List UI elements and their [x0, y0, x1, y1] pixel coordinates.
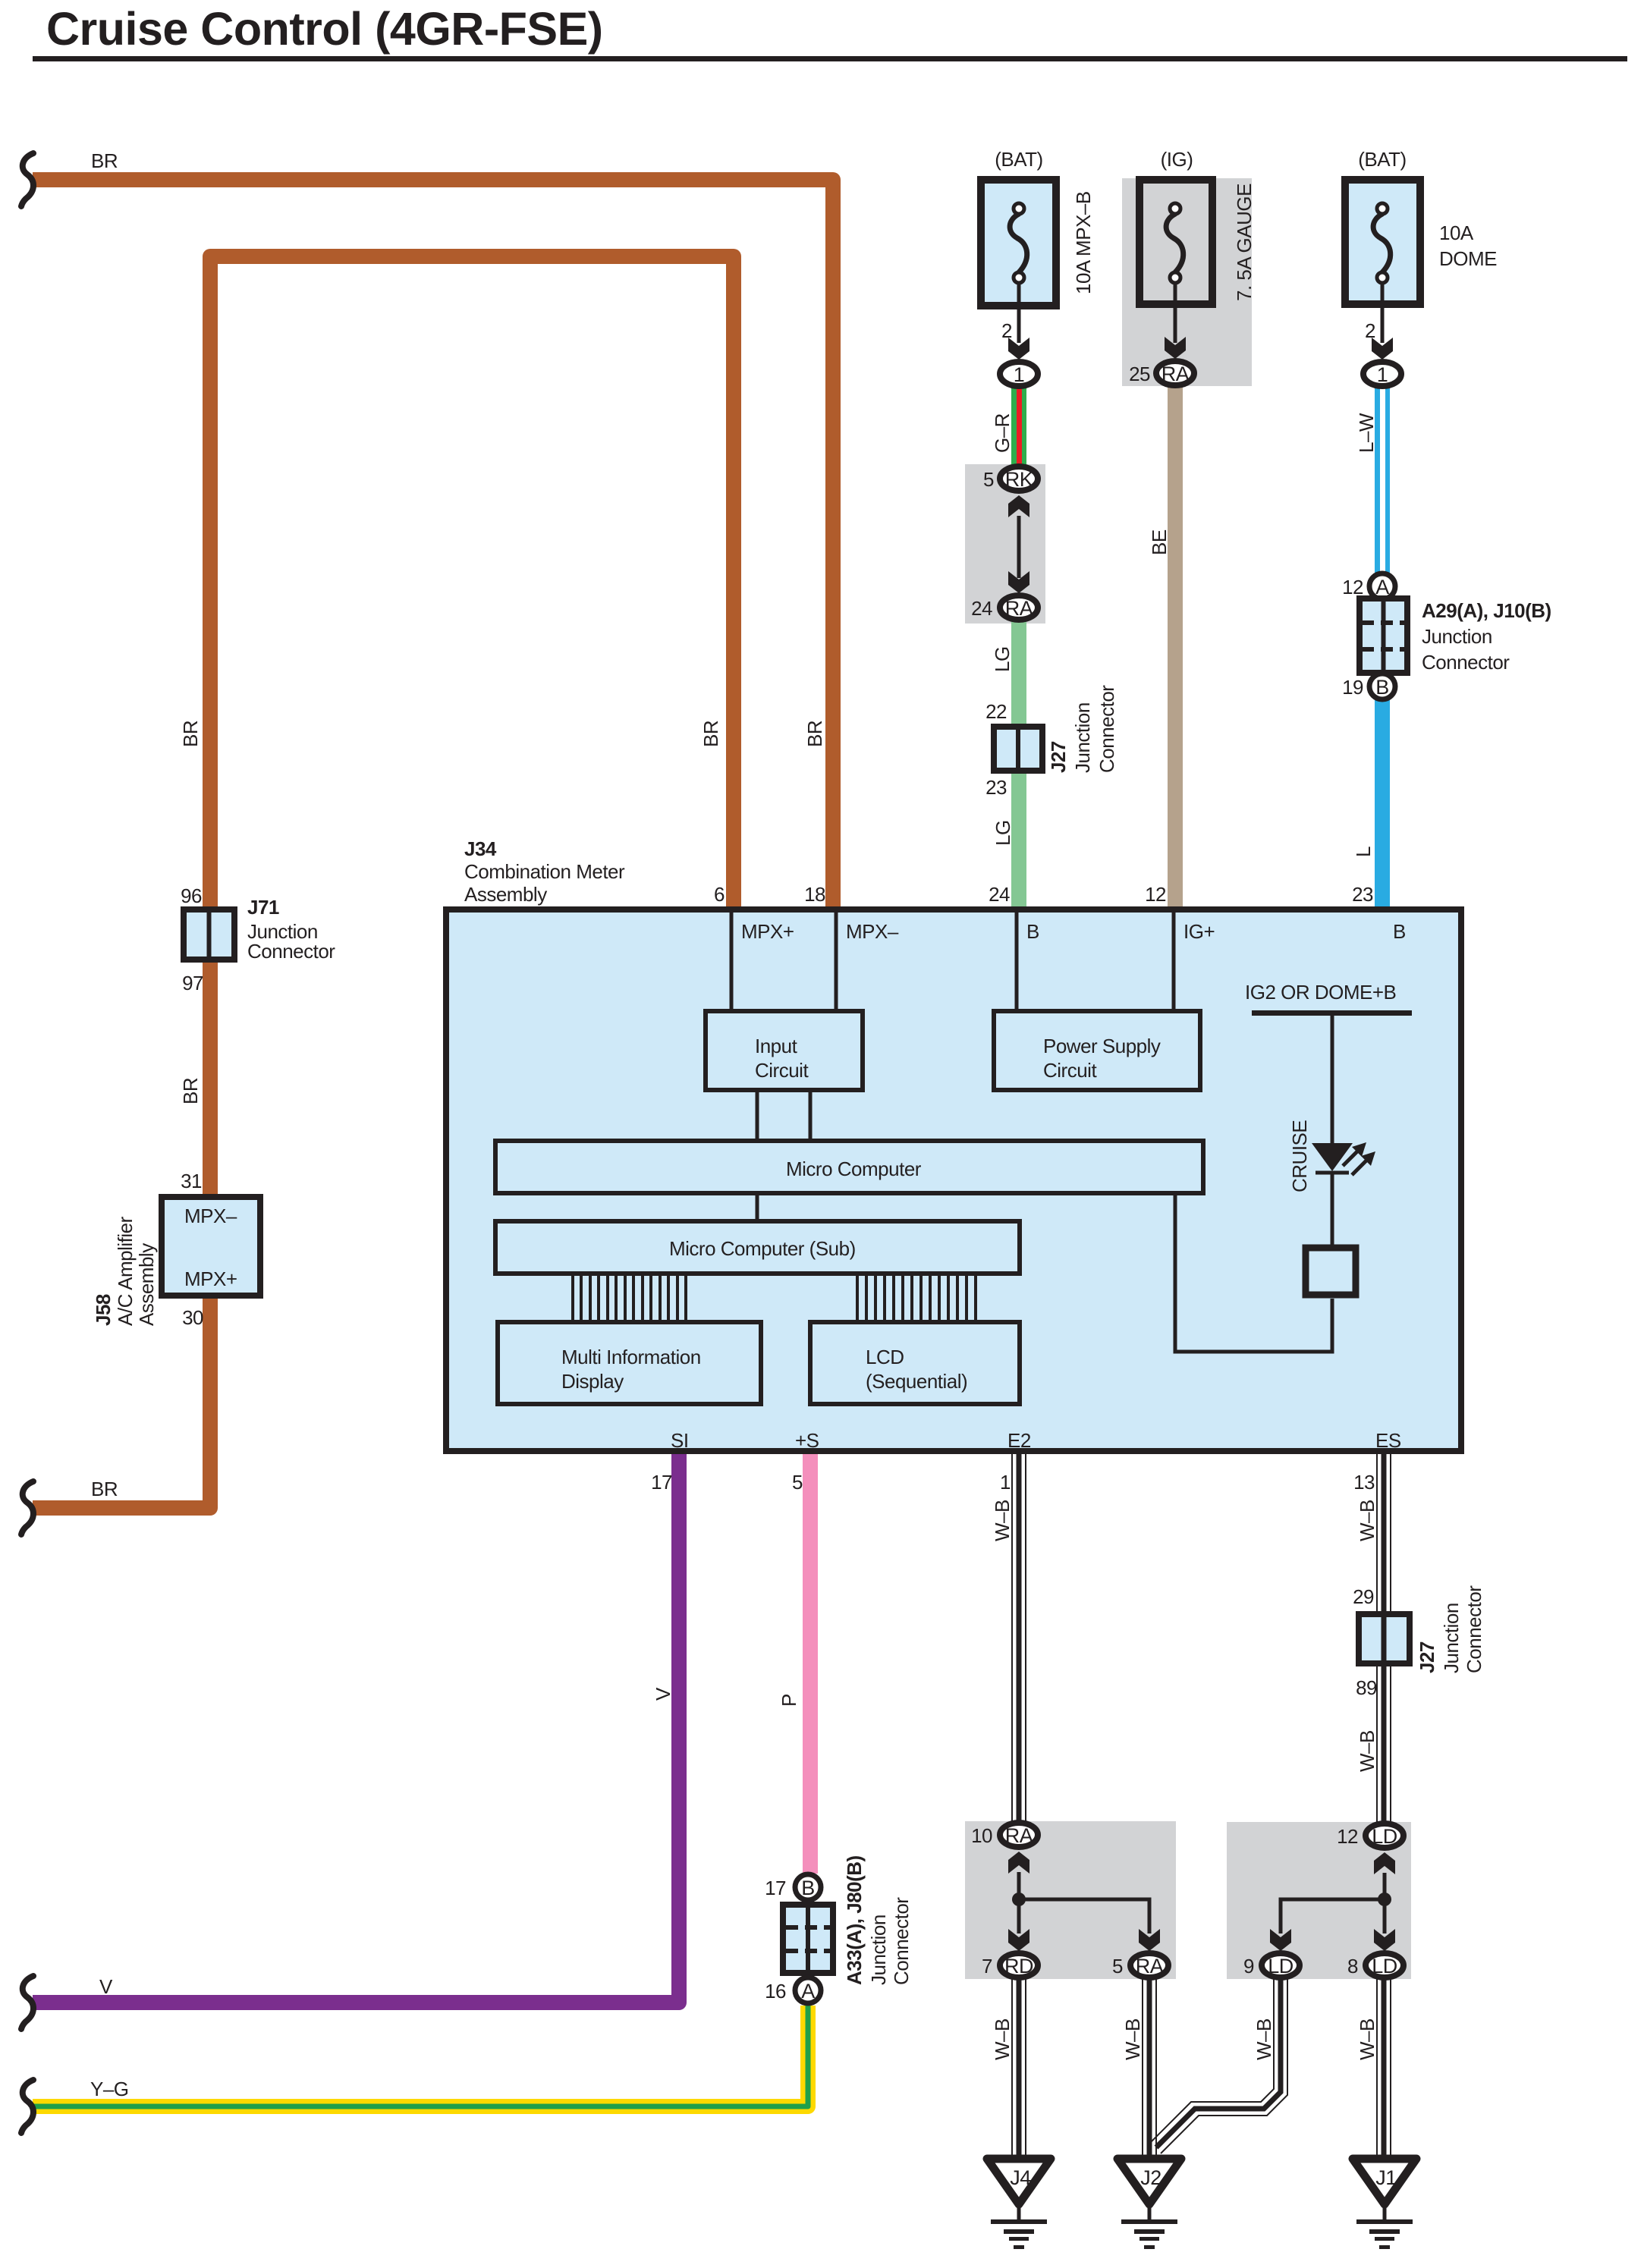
svg-text:L–W: L–W	[1355, 413, 1378, 453]
svg-text:Combination Meter: Combination Meter	[464, 860, 625, 883]
branch wires gray box 1	[1019, 1872, 1149, 1933]
wire W-B E2	[1012, 1451, 1026, 1822]
connector arrow down into LD9	[1270, 1929, 1291, 1951]
svg-text:DOME: DOME	[1439, 247, 1497, 270]
fuse DOME output stem	[1381, 283, 1385, 343]
svg-text:V: V	[99, 1975, 113, 1998]
wire IG+ pin12 to power supply circuit	[1172, 909, 1176, 1011]
double connector arrows RK-RA	[1008, 495, 1029, 517]
svg-text:W–B: W–B	[1121, 2018, 1144, 2060]
wire W-B RA5 to J2	[1143, 1978, 1156, 2160]
multi information display box	[498, 1322, 761, 1404]
wire V	[33, 1451, 679, 2003]
junction connector J27 top	[994, 727, 1042, 771]
svg-text:1: 1	[1000, 1471, 1011, 1494]
svg-text:9: 9	[1243, 1955, 1254, 1977]
svg-text:17: 17	[765, 1877, 786, 1899]
wire P	[803, 1451, 818, 1874]
cruise indicator LED	[1312, 1143, 1353, 1171]
svg-text:MPX+: MPX+	[184, 1268, 237, 1290]
svg-text:LD: LD	[1372, 1955, 1397, 1977]
svg-text:W–B: W–B	[991, 1500, 1014, 1541]
svg-text:MPX–: MPX–	[846, 920, 899, 943]
svg-text:J58: J58	[92, 1294, 115, 1326]
svg-text:J27: J27	[1047, 741, 1070, 773]
svg-text:B: B	[1393, 920, 1406, 943]
svg-text:Junction: Junction	[1440, 1603, 1463, 1673]
svg-text:97: 97	[182, 972, 203, 994]
svg-text:2: 2	[1001, 319, 1012, 342]
svg-text:12: 12	[1337, 1825, 1358, 1848]
svg-text:(BAT): (BAT)	[995, 148, 1042, 171]
power supply circuit box	[994, 1011, 1200, 1090]
svg-text:12: 12	[1145, 883, 1166, 906]
svg-text:MPX–: MPX–	[184, 1205, 237, 1227]
svg-text:RA: RA	[1005, 1824, 1033, 1847]
svg-text:6: 6	[714, 883, 725, 906]
fuse 10A MPX-B	[981, 180, 1056, 306]
wire W-B RD7 to J4	[1012, 1978, 1026, 2160]
svg-text:W–B: W–B	[1253, 2018, 1275, 2060]
svg-text:24: 24	[989, 883, 1010, 906]
svg-text:LD: LD	[1372, 1825, 1397, 1848]
svg-text:(Sequential): (Sequential)	[866, 1370, 967, 1393]
svg-text:ES: ES	[1375, 1429, 1401, 1452]
svg-text:Junction: Junction	[1071, 702, 1094, 773]
wire G-R	[1011, 383, 1026, 466]
svg-text:J27: J27	[1416, 1641, 1438, 1673]
svg-text:Micro Computer (Sub): Micro Computer (Sub)	[669, 1237, 856, 1260]
J34 combination meter assembly box	[446, 909, 1461, 1451]
terminal oval RA pin 25	[1156, 361, 1194, 385]
svg-text:24: 24	[971, 597, 992, 620]
svg-text:2: 2	[1365, 319, 1375, 342]
fuse 7.5A GAUGE	[1139, 180, 1212, 304]
wire MPX- pin18 to input circuit	[835, 909, 838, 1011]
micro computer box	[495, 1141, 1203, 1193]
svg-text:10A MPX–B: 10A MPX–B	[1072, 191, 1095, 294]
wire LG upper	[1011, 620, 1026, 727]
svg-text:BE: BE	[1148, 529, 1171, 555]
branch wires gray box 2	[1281, 1873, 1385, 1933]
svg-text:(IG): (IG)	[1161, 148, 1193, 171]
svg-text:10A: 10A	[1439, 221, 1474, 244]
svg-text:Power Supply: Power Supply	[1043, 1035, 1161, 1057]
svg-text:5: 5	[983, 468, 994, 491]
svg-text:J1: J1	[1375, 2166, 1397, 2189]
svg-text:Circuit: Circuit	[755, 1059, 809, 1082]
junction connector A33(A) J80(B)	[795, 1874, 821, 1900]
break squiggle V	[21, 1976, 33, 2029]
svg-text:19: 19	[1342, 676, 1363, 699]
gray background box RA10/RD7/RA5	[965, 1821, 1176, 1979]
svg-text:Connector: Connector	[1095, 685, 1118, 773]
wire B pin24 to power supply circuit	[1015, 909, 1019, 1011]
terminal oval LD pin 12	[1366, 1824, 1404, 1848]
terminal oval 1 (DOME)	[1363, 362, 1401, 386]
svg-text:A: A	[801, 1980, 815, 2003]
connector arrow up into LD12	[1374, 1852, 1395, 1874]
svg-text:13: 13	[1353, 1471, 1375, 1494]
svg-text:Connector: Connector	[1463, 1585, 1485, 1673]
fuse GAUGE output stem	[1174, 283, 1177, 343]
svg-text:J2: J2	[1140, 2166, 1161, 2189]
connector arrow into terminal 1 (DOME)	[1372, 338, 1393, 360]
wire BR top (MPX-)	[33, 180, 833, 909]
input circuit box	[706, 1011, 863, 1090]
svg-text:Cruise Control (4GR-FSE): Cruise Control (4GR-FSE)	[46, 3, 603, 55]
break squiggle top BR	[21, 153, 33, 206]
svg-text:89: 89	[1356, 1676, 1377, 1699]
svg-text:22: 22	[985, 700, 1007, 723]
svg-text:5: 5	[1112, 1955, 1123, 1977]
wire cruise LED to lamp driver box	[1331, 1171, 1334, 1248]
svg-text:LCD: LCD	[866, 1346, 904, 1368]
svg-text:IG+: IG+	[1183, 920, 1215, 943]
svg-text:Connector: Connector	[247, 940, 335, 963]
svg-text:12: 12	[1342, 576, 1363, 598]
svg-text:LG: LG	[992, 820, 1014, 846]
svg-text:1: 1	[1377, 363, 1388, 386]
svg-text:B: B	[1375, 676, 1389, 699]
svg-text:Input: Input	[755, 1035, 798, 1057]
wire BE	[1168, 385, 1183, 908]
svg-text:W–B: W–B	[1356, 1500, 1378, 1541]
svg-text:RD: RD	[1004, 1955, 1033, 1977]
connector arrow down into RD7	[1008, 1929, 1029, 1951]
svg-text:L: L	[1352, 847, 1375, 857]
svg-text:30: 30	[182, 1306, 203, 1329]
svg-text:7. 5A GAUGE: 7. 5A GAUGE	[1233, 184, 1256, 301]
terminal oval RD pin 7	[1000, 1953, 1038, 1977]
svg-text:31: 31	[181, 1170, 202, 1192]
break squiggle lower BR	[21, 1481, 33, 1535]
terminal oval LD pin 8	[1366, 1953, 1404, 1977]
terminal oval RA pin 10	[1000, 1823, 1038, 1847]
svg-text:RA: RA	[1005, 597, 1033, 620]
wire micro computer to micro computer sub	[756, 1193, 759, 1221]
svg-text:10: 10	[971, 1824, 992, 1847]
wire L-W	[1375, 385, 1390, 573]
J34 internal connection lines	[731, 909, 1332, 1352]
svg-text:BR: BR	[91, 149, 118, 172]
svg-text:MPX+: MPX+	[741, 920, 794, 943]
svg-text:23: 23	[1352, 883, 1373, 906]
svg-text:Connector: Connector	[1422, 651, 1510, 674]
svg-text:29: 29	[1353, 1585, 1374, 1608]
svg-text:W–B: W–B	[1356, 1730, 1378, 1772]
ribbon cable to LCD	[857, 1274, 976, 1322]
wire input circuit to micro computer	[756, 1090, 759, 1141]
junction connector A29(A) J10(B)	[1369, 573, 1395, 599]
break squiggle Y-G	[21, 2080, 33, 2133]
terminal oval 1 (MPX-B)	[1000, 362, 1038, 386]
connector arrow into RA 25	[1165, 337, 1186, 359]
svg-text:CRUISE: CRUISE	[1288, 1120, 1311, 1192]
terminal oval RA pin 24	[1000, 595, 1038, 620]
svg-text:BR: BR	[179, 721, 202, 747]
svg-text:J4: J4	[1010, 2166, 1031, 2189]
gray background box RK/RA	[965, 464, 1045, 624]
terminal oval RA pin 5	[1130, 1953, 1168, 1977]
title rule	[33, 56, 1627, 61]
svg-text:Assembly: Assembly	[464, 883, 547, 906]
svg-text:16: 16	[765, 1980, 786, 2003]
svg-text:SI: SI	[671, 1429, 689, 1452]
svg-text:W–B: W–B	[991, 2018, 1014, 2060]
svg-text:A/C Amplifier: A/C Amplifier	[114, 1216, 137, 1326]
svg-text:RA: RA	[1161, 363, 1190, 385]
svg-text:RK: RK	[1005, 468, 1033, 491]
svg-text:Junction: Junction	[1422, 625, 1492, 648]
svg-text:BR: BR	[699, 721, 722, 747]
svg-text:96: 96	[181, 884, 202, 907]
terminal oval RK pin 5	[1000, 466, 1038, 491]
svg-text:8: 8	[1347, 1955, 1358, 1977]
svg-text:A33(A), J80(B): A33(A), J80(B)	[843, 1855, 866, 1985]
ground J2	[1117, 2159, 1181, 2249]
wire IG2 bus to cruise LED	[1331, 1013, 1334, 1143]
connector arrow down into RA5	[1139, 1929, 1160, 1951]
svg-text:Multi Information: Multi Information	[561, 1346, 701, 1368]
junction dot 2	[1378, 1893, 1391, 1906]
svg-text:BR: BR	[91, 1478, 118, 1500]
svg-text:(BAT): (BAT)	[1358, 148, 1406, 171]
fuse 10A DOME	[1345, 180, 1420, 304]
svg-text:A29(A), J10(B): A29(A), J10(B)	[1422, 599, 1551, 622]
terminal oval LD pin 9	[1262, 1953, 1300, 1977]
svg-text:J34: J34	[464, 837, 497, 860]
wire BR loop (MPX+ / J71 / J58)	[33, 256, 734, 1508]
svg-text:IG2 OR DOME+B: IG2 OR DOME+B	[1245, 981, 1396, 1004]
svg-text:J71: J71	[247, 896, 279, 919]
wire Y-G	[33, 2006, 808, 2106]
wire W-B LD9 merge to J2	[1152, 1978, 1287, 2153]
svg-text:17: 17	[651, 1471, 672, 1494]
svg-text:LG: LG	[991, 646, 1014, 672]
svg-text:Circuit: Circuit	[1043, 1059, 1097, 1082]
wire W-B LD8 to J1	[1377, 1978, 1391, 2160]
ribbon cable to multi information display	[573, 1274, 686, 1322]
micro computer (sub) box	[495, 1221, 1020, 1274]
svg-text:Y–G: Y–G	[90, 2078, 129, 2100]
svg-text:A: A	[1375, 576, 1389, 598]
connector arrow up into RA10	[1008, 1852, 1029, 1874]
svg-text:18: 18	[804, 883, 825, 906]
connector arrow into terminal 1	[1008, 338, 1029, 360]
svg-text:23: 23	[985, 776, 1007, 799]
svg-text:G–R: G–R	[991, 413, 1014, 453]
wire micro computer to cruise lamp circuit	[1175, 1193, 1332, 1352]
svg-text:BR: BR	[803, 721, 826, 747]
wire MPX+ pin6 to input circuit	[730, 909, 734, 1011]
svg-text:7: 7	[982, 1955, 992, 1977]
wire LG lower	[1011, 772, 1026, 908]
svg-text:1: 1	[1014, 363, 1025, 386]
svg-text:V: V	[652, 1687, 674, 1701]
svg-text:E2: E2	[1007, 1429, 1031, 1452]
LCD (sequential) box	[810, 1322, 1020, 1404]
svg-text:Junction: Junction	[867, 1915, 890, 1985]
svg-text:RA: RA	[1136, 1955, 1164, 1977]
gray background box LD12/LD9/LD8	[1227, 1822, 1411, 1979]
wire input circuit to micro computer 2	[809, 1090, 813, 1141]
connector arrow down into LD8	[1374, 1929, 1395, 1951]
svg-text:Connector: Connector	[890, 1897, 913, 1985]
svg-text:Micro Computer: Micro Computer	[786, 1158, 922, 1180]
svg-text:Assembly: Assembly	[135, 1243, 158, 1326]
svg-text:B: B	[801, 1877, 815, 1899]
junction dot	[1012, 1893, 1026, 1906]
svg-text:25: 25	[1129, 363, 1150, 385]
svg-text:BR: BR	[179, 1078, 202, 1104]
svg-text:+S: +S	[795, 1429, 819, 1452]
gray background box IG fuse	[1122, 178, 1252, 386]
svg-text:LD: LD	[1268, 1955, 1294, 1977]
cruise lamp driver box	[1306, 1248, 1356, 1295]
svg-text:Display: Display	[561, 1370, 624, 1393]
ground J1	[1353, 2159, 1416, 2249]
svg-text:P: P	[778, 1694, 800, 1707]
wire L	[1375, 699, 1390, 908]
svg-text:5: 5	[792, 1471, 803, 1494]
wire W-B ES	[1377, 1451, 1391, 1824]
svg-text:B: B	[1026, 920, 1039, 943]
ground J4	[987, 2159, 1051, 2249]
svg-text:W–B: W–B	[1356, 2018, 1378, 2060]
fuse MPX-B output stem	[1017, 283, 1021, 343]
LED emission arrows	[1343, 1151, 1367, 1175]
